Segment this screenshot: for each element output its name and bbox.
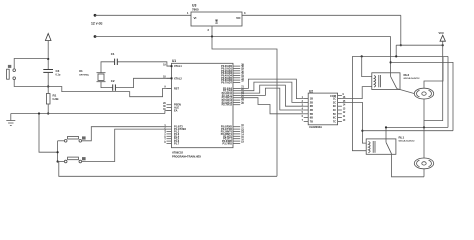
pin 2 P1.1/T2EX U1 [164,127,186,131]
terminal post P- [94,35,97,38]
junction vcc arrow [442,44,444,46]
wire gnd lower horizontal [362,130,453,132]
svg-text:2B: 2B [310,101,313,104]
pin 9 RST U1 [164,87,179,91]
svg-text:7805: 7805 [192,8,199,12]
crystal X1 [79,69,106,82]
wire VO drop [400,15,402,45]
regulator U3 7805 [191,4,242,27]
svg-text:VCC: VCC [439,31,445,35]
pin 1 1B U2 [302,97,313,101]
pin 4 P1.3 U1 [164,131,179,136]
wire EA tie [165,111,172,114]
svg-text:GND: GND [216,19,219,25]
svg-text:VI: VI [194,16,197,20]
wire button4 right to P1.1 [82,129,167,161]
pin 18 XTAL2 U1 [163,77,182,81]
junction 5v rail vcc [395,55,397,57]
svg-text:3B: 3B [310,105,313,108]
wire button3 left [58,140,65,142]
motor M2 [414,158,433,169]
pin 31 EA U1 [163,109,178,113]
terminal post P+ [94,14,97,17]
pin 13 4C U2 [333,108,346,112]
wire motor2 bottom [423,169,425,177]
wire 5v rail horizontal [352,55,448,57]
wire button common vertical [57,141,59,162]
wire button4 left [58,161,65,163]
pin 38 P0.1/AD1 U1 [221,67,244,71]
wire U3 GND pin down [211,26,213,37]
pin 27 P2.6/A14 U1 [222,101,245,105]
svg-text:RL1: RL1 [399,135,405,139]
wire 12v+ to U3 VI [95,14,191,16]
pin 17 P3.7/RD U1 [223,142,245,146]
svg-text:P1.7: P1.7 [174,143,180,146]
wire motor1 top [424,57,443,88]
wire C2 to XTAL2 [116,78,172,87]
pin 35 P0.4/AD4 U1 [221,74,244,78]
wire RL1 common rail [386,127,448,138]
svg-text:RST: RST [174,87,179,90]
capacitor C2 [111,79,116,91]
pin 16 1C U2 [333,97,346,101]
wire crystal bottom to C2 [101,82,112,88]
power-on reset vcc arrow [45,34,51,60]
junction 2C riser [361,130,363,132]
wire ground net down-right to bottom rail [212,37,277,177]
wire button1 top to vcc node [14,59,48,69]
wire node RST to R1 [47,87,49,94]
wire vcc down to 5v rail [395,45,397,56]
pin 12 P3.2/INT0 U1 [221,130,245,134]
capacitor C3 [43,69,61,77]
pin 28 P2.7/A15 U1 [222,103,245,107]
push button BUT3 [64,157,85,163]
wire button1 bottom to RST node [14,80,48,87]
pin 4 4B U2 [302,107,313,112]
wire RL2 NO to motor1 [397,89,415,94]
junction R1 ground [47,112,49,114]
svg-text:RL2: RL2 [404,73,410,77]
wire C1 to XTAL1 [118,62,172,66]
wire ULN 2C riser [342,102,366,143]
pin 24 P2.3/A11 U1 [222,93,245,98]
svg-text:1C: 1C [333,98,336,101]
svg-text:4C: 4C [333,109,336,112]
junction U3 GND on 12v- rail [211,35,213,37]
pin 9 COM U2 [338,94,345,96]
pin 14 3C U2 [333,104,346,109]
wire P2.2 to ULN 3B [240,85,304,106]
wire P2.3 to ULN 4B [240,88,304,110]
svg-text:7C: 7C [333,120,336,123]
wire RL1 NO down to bottom right rail [392,154,425,177]
svg-text:C1: C1 [111,52,115,56]
pin 21 P2.0/A8 U1 [223,87,245,91]
junction gnd relay2 [390,61,392,63]
pin 13 P3.3/INT1 U1 [221,132,245,136]
wire 12v- down right side [390,37,392,73]
svg-text:6B: 6B [310,117,313,120]
svg-text:12 v dc: 12 v dc [91,22,103,26]
pin 32 P0.7/AD7 U1 [221,81,244,85]
motor M1 [414,88,433,99]
darlington array U2 ULN2003A [308,89,337,129]
wire button common drop [39,114,58,153]
junction node button1 top [47,58,49,60]
svg-text:EA: EA [174,110,178,113]
relay RL2 [372,73,420,90]
svg-text:G5CLE-14-DC12: G5CLE-14-DC12 [404,77,421,80]
svg-text:CRYSTAL: CRYSTAL [79,74,90,77]
junction XTAL1 pin [171,65,173,67]
pin 19 XTAL1 U1 [163,64,182,68]
pin 3 3B U2 [302,105,313,109]
wire P2.4 to ULN 5B [240,98,304,114]
pin 22 P2.1/A9 U1 [223,89,245,93]
pin 26 P2.5/A13 U1 [222,98,245,102]
pin 7 P1.6 U1 [164,139,179,143]
pin 8 P1.7 U1 [164,142,179,146]
svg-text:5C: 5C [333,113,336,116]
pin 29 PSEN U1 [163,103,181,107]
wire P2.1 to ULN 2B [240,82,304,102]
wire bottom rail [59,162,277,177]
svg-text:7B: 7B [310,120,313,123]
svg-text:3C: 3C [333,105,336,108]
pin 16 P3.6/WR U1 [222,139,244,143]
pin 37 P0.2/AD2 U1 [221,69,244,73]
pin 25 P2.4/A12 U1 [222,96,245,100]
svg-text:P0.7/AD7: P0.7/AD7 [221,81,232,84]
svg-text:X1: X1 [79,69,83,73]
wire C3 to node RST [47,73,49,87]
svg-text:5B: 5B [310,113,313,116]
junction button common [57,151,59,153]
svg-text:4B: 4B [310,109,313,112]
wire RST staircase to U1 RST [48,87,171,97]
pin 6 6B U2 [302,116,313,120]
pin 10 P3.0/RXD U1 [221,125,245,129]
svg-text:XTAL2: XTAL2 [174,77,182,80]
relay RL1 [366,135,415,154]
svg-text:6C: 6C [333,117,336,120]
junction button drop on ground rail [38,112,40,114]
push button BUT2 [64,136,85,142]
svg-text:G5CLE-14-DC12: G5CLE-14-DC12 [399,140,416,143]
wire vcc horizontal [396,44,443,46]
wire RL2 coil bottom to ULN 1C [342,87,372,99]
wire 12v- rail [95,36,391,38]
pin 30 ALE U1 [163,106,179,110]
svg-text:U1: U1 [172,59,176,63]
wire U3 VO output [242,14,401,16]
pin 36 P0.3/AD3 U1 [221,71,244,75]
capacitor C1 [111,52,118,65]
pin 34 P0.5/AD5 U1 [221,75,244,80]
wire crystal top to C1 [101,62,114,73]
svg-text:2C: 2C [333,101,336,104]
wire 5v rail to RL1 coil bottom [352,56,366,150]
vcc arrow right [439,31,446,45]
pin 5 5B U2 [302,112,313,116]
pin 15 2C U2 [333,101,346,105]
pin 3 P1.2 U1 [164,130,179,134]
junction node RST [47,85,49,87]
ground symbol [6,114,15,126]
junction 5v rail coil feed [361,55,363,57]
junction VO on vcc line [400,44,402,46]
svg-text:0.22k: 0.22k [53,98,60,101]
pin 11 6C U2 [333,116,346,120]
pin 5 P1.4 U1 [164,135,179,139]
svg-text:0.1u: 0.1u [56,73,61,76]
push button BUT1 [7,65,16,80]
wire R1 to ground rail [47,104,49,114]
wire gnd to right cluster [391,62,453,130]
svg-text:AT89C52: AT89C52 [172,151,183,155]
pin 2 2B U2 [302,101,313,105]
svg-text:R1: R1 [53,94,57,98]
svg-text:VO: VO [236,16,241,20]
junction button4 left [57,160,59,162]
pin 6 P1.5 U1 [164,137,179,141]
wire vcc node to C3 [47,59,49,69]
pin 15 P3.5/T1 U1 [223,137,244,141]
pin 7 7B U2 [302,120,313,124]
wire vcc right drop [424,45,443,120]
pin 39 P0.0/AD0 U1 [221,64,244,68]
svg-text:P2.7/A15: P2.7/A15 [222,104,233,107]
wire motor1 bottom to motor2 top [423,99,425,158]
junction XTAL2 pin [171,77,173,79]
pin 1 P1.0/T2 U1 [164,125,183,129]
pin 11 P3.1/TXD U1 [221,127,244,131]
svg-text:ULN2003A: ULN2003A [309,125,322,129]
svg-text:XTAL1: XTAL1 [174,65,182,68]
svg-text:C2: C2 [111,79,115,83]
wire 5v to RL1 common rail [447,56,449,127]
wire button3 right to P1.0 [82,127,167,141]
svg-text:C3: C3 [56,69,60,73]
pin 14 P3.4/T0 U1 [223,134,244,139]
pin 33 P0.6/AD6 U1 [221,78,244,82]
junction motor1 bottom [423,126,425,128]
pin 10 7C U2 [333,120,346,124]
svg-text:1B: 1B [310,98,313,101]
microcontroller U1 AT89C52 [172,59,234,159]
wire RL2 coil top feed [362,56,372,76]
pin 23 P2.2/A10 U1 [222,91,245,95]
junction RL1 common [385,126,387,128]
resistor R1 [46,94,59,105]
pin 12 5C U2 [333,112,346,116]
wire P2.0 to ULN 1B [240,79,304,99]
wire ground rail left [11,113,165,115]
svg-text:PROGRAM=TRAIN.HEX: PROGRAM=TRAIN.HEX [172,155,201,159]
svg-text:P3.7/RD: P3.7/RD [223,143,233,146]
